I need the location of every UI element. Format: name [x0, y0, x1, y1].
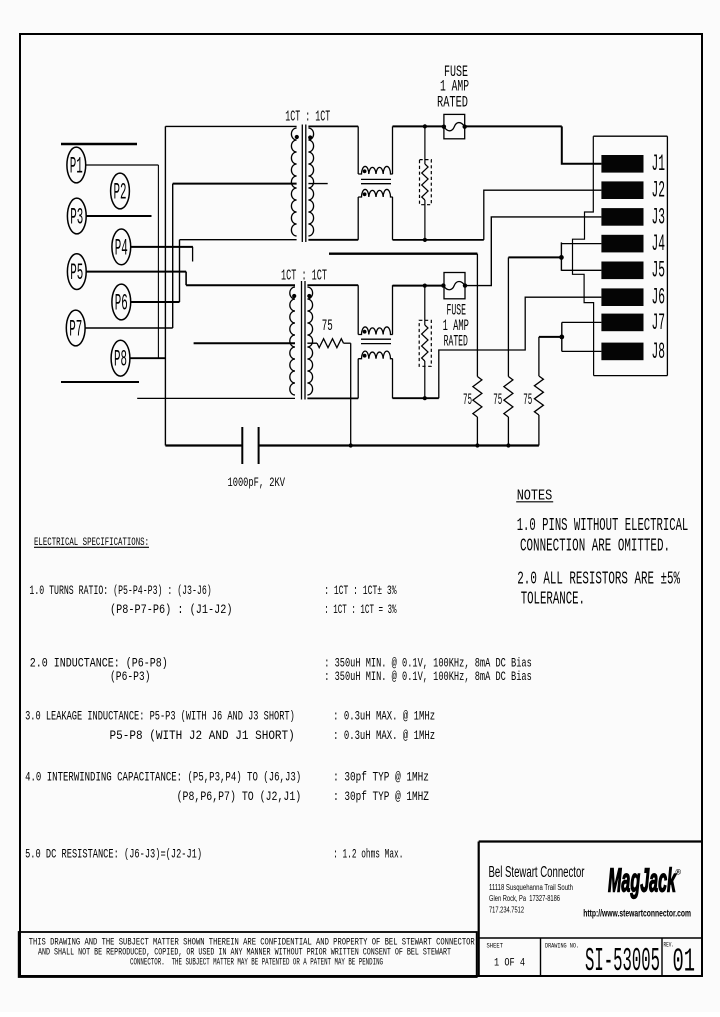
svg-text:TOLERANCE.: TOLERANCE. — [521, 589, 585, 609]
svg-text:P5-P8 (WITH J2 AND J1 SHORT): P5-P8 (WITH J2 AND J1 SHORT) — [110, 729, 295, 743]
svg-text:J1: J1 — [652, 151, 666, 177]
svg-text:1000pF, 2KV: 1000pF, 2KV — [228, 475, 286, 490]
svg-text:J7: J7 — [652, 310, 666, 336]
svg-text:DRAWING NO.: DRAWING NO. — [545, 943, 579, 951]
svg-text:1.0 PINS WITHOUT ELECTRICAL: 1.0 PINS WITHOUT ELECTRICAL — [517, 516, 689, 536]
svg-text:11118 Susquehanna Trail South: 11118 Susquehanna Trail South — [489, 883, 573, 892]
svg-text:RATED: RATED — [444, 333, 468, 351]
svg-text:RATED: RATED — [437, 94, 468, 112]
svg-text:: 350uH MIN. @ 0.1V, 100KHz, 8: : 350uH MIN. @ 0.1V, 100KHz, 8mA DC Bias — [324, 670, 532, 684]
svg-text:P4: P4 — [115, 235, 128, 261]
svg-text:75: 75 — [322, 317, 333, 335]
svg-text:CONNECTOR. THE SUBJECT MATTER: CONNECTOR. THE SUBJECT MATTER MAY BE PAT… — [130, 958, 383, 969]
svg-text:MagJack: MagJack — [608, 862, 677, 899]
svg-text:: 30pf TYP @ 1MHZ: : 30pf TYP @ 1MHZ — [333, 790, 429, 804]
svg-text:P5: P5 — [70, 260, 83, 286]
svg-text:: 350uH MIN. @ 0.1V, 100KHz, 8: : 350uH MIN. @ 0.1V, 100KHz, 8mA DC Bias — [324, 657, 532, 671]
svg-text:®: ® — [676, 868, 682, 877]
svg-text:http://www.stewartconnector.co: http://www.stewartconnector.com — [583, 908, 691, 920]
svg-text:4.0 INTERWINDING CAPACITANCE:: 4.0 INTERWINDING CAPACITANCE: (P5,P3,P4)… — [25, 771, 301, 785]
svg-text:P7: P7 — [69, 316, 82, 342]
svg-text:SHEET: SHEET — [487, 943, 504, 951]
svg-text:CONNECTION ARE OMITTED.: CONNECTION ARE OMITTED. — [520, 537, 670, 557]
svg-text:J3: J3 — [652, 204, 666, 230]
svg-text:75: 75 — [463, 391, 472, 409]
svg-text:(P8,P6,P7) TO (J2,J1): (P8,P6,P7) TO (J2,J1) — [177, 790, 302, 804]
svg-text:: 0.3uH MAX. @ 1MHz: : 0.3uH MAX. @ 1MHz — [333, 729, 435, 743]
svg-text:P3: P3 — [70, 204, 83, 230]
svg-text:J6: J6 — [652, 285, 666, 311]
svg-text:(P8-P7-P6) : (J1-J2): (P8-P7-P6) : (J1-J2) — [110, 603, 233, 617]
svg-text:1CT : 1CT: 1CT : 1CT — [281, 268, 327, 285]
svg-text:: 1CT : 1CT± 3%: : 1CT : 1CT± 3% — [324, 584, 397, 598]
svg-text:3.0 LEAKAGE INDUCTANCE: P5-P3: 3.0 LEAKAGE INDUCTANCE: P5-P3 (WITH J6 A… — [25, 710, 295, 724]
svg-text:Bel Stewart Connector: Bel Stewart Connector — [489, 864, 585, 881]
svg-text:J5: J5 — [652, 258, 666, 284]
svg-text:P6: P6 — [115, 290, 128, 316]
svg-text:1CT : 1CT: 1CT : 1CT — [285, 109, 330, 126]
svg-text:: 0.3uH MAX. @ 1MHz: : 0.3uH MAX. @ 1MHz — [333, 710, 435, 724]
svg-text:J2: J2 — [652, 178, 666, 204]
svg-text:J8: J8 — [652, 339, 666, 365]
svg-text:P8: P8 — [114, 347, 127, 373]
svg-text:: 30pf TYP @ 1MHz: : 30pf TYP @ 1MHz — [333, 771, 429, 785]
svg-text:5.0 DC RESISTANCE: (J6-J3)=(J2: 5.0 DC RESISTANCE: (J6-J3)=(J2-J1) — [25, 848, 202, 862]
svg-text:01: 01 — [673, 944, 696, 981]
svg-text:1 OF 4: 1 OF 4 — [494, 958, 525, 970]
svg-text:P1: P1 — [70, 153, 83, 179]
svg-text:J4: J4 — [652, 231, 666, 257]
svg-text:: 1.2 ohms Max.: : 1.2 ohms Max. — [333, 848, 403, 862]
svg-text:P2: P2 — [114, 179, 127, 205]
svg-text:75: 75 — [523, 391, 532, 409]
svg-text:: 1CT : 1CT = 3%: : 1CT : 1CT = 3% — [324, 603, 397, 617]
svg-text:Glen Rock, Pa 17327-8186: Glen Rock, Pa 17327-8186 — [489, 894, 560, 903]
svg-text:(P6-P3): (P6-P3) — [110, 670, 151, 684]
svg-text:717.234.7512: 717.234.7512 — [489, 906, 524, 915]
svg-text:SI-53005: SI-53005 — [585, 943, 660, 980]
svg-text:75: 75 — [493, 391, 502, 409]
svg-text:1.0 TURNS RATIO: (P5-P4-P3) :: 1.0 TURNS RATIO: (P5-P4-P3) : (J3-J6) — [29, 584, 211, 598]
svg-text:2.0 ALL RESISTORS ARE ±5%: 2.0 ALL RESISTORS ARE ±5% — [517, 569, 680, 589]
svg-text:2.0 INDUCTANCE: (P6-P8): 2.0 INDUCTANCE: (P6-P8) — [30, 657, 168, 671]
